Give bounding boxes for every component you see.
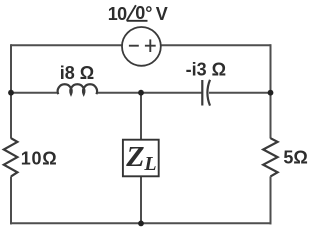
svg-text:Z: Z <box>125 141 144 173</box>
svg-text:0°: 0° <box>135 3 152 23</box>
svg-text:L: L <box>143 153 156 175</box>
svg-text:5Ω: 5Ω <box>283 147 307 167</box>
svg-text:-i3 Ω: -i3 Ω <box>186 60 226 80</box>
svg-text:i8 Ω: i8 Ω <box>60 63 94 83</box>
svg-text:10: 10 <box>108 4 127 24</box>
svg-text:V: V <box>156 4 168 24</box>
svg-text:10Ω: 10Ω <box>21 149 58 169</box>
